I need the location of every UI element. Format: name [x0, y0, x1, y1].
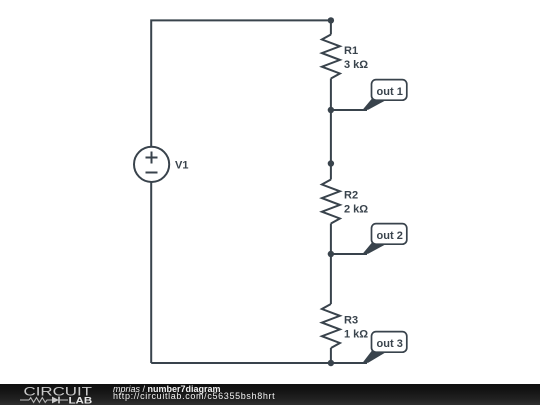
- wire out2 node to R3: [330, 254, 332, 304]
- flag out 2 tail: [362, 243, 386, 254]
- flag out 2 box: [372, 224, 407, 245]
- wire top horizontal: [151, 20, 331, 147]
- flag out 1 box: [372, 80, 407, 101]
- credit line author/title: [113, 385, 221, 394]
- wire R1 to node out1: [330, 79, 332, 111]
- flag out 1 tail: [362, 99, 386, 110]
- voltage source V1: [134, 147, 169, 182]
- resistor R1: [322, 35, 340, 79]
- flag out 3 box: [372, 332, 407, 353]
- wire node out1 to flag tail: [331, 109, 367, 111]
- logo wire lead right: [59, 399, 68, 401]
- logo wire lead left: [20, 399, 29, 401]
- wire R2 to node out2: [330, 224, 332, 255]
- wire bottom horizontal: [151, 362, 331, 364]
- wire right vertical upper lead R1: [330, 20, 332, 34]
- flag out 3 tail: [362, 351, 386, 363]
- wire left lower: [150, 183, 152, 364]
- wire node out2 to flag tail: [331, 253, 367, 255]
- node dot top: [328, 17, 334, 23]
- resistor R3: [322, 304, 340, 348]
- wire bottom node to flag tail out3: [331, 362, 367, 364]
- svg-text:LAB: LAB: [69, 395, 93, 405]
- node dot out2: [328, 251, 334, 257]
- resistor R2: [322, 180, 340, 224]
- wire out1 node to R2 node: [330, 110, 332, 180]
- credit line url: [113, 392, 275, 401]
- logo diode: [52, 397, 59, 404]
- node dot bottom: [328, 360, 334, 366]
- footer bar: [0, 384, 540, 405]
- node dot R2 top: [328, 160, 334, 166]
- node dot out1: [328, 107, 334, 113]
- wire R3 to bottom node: [330, 348, 332, 363]
- logo resistor zigzag: [29, 398, 52, 403]
